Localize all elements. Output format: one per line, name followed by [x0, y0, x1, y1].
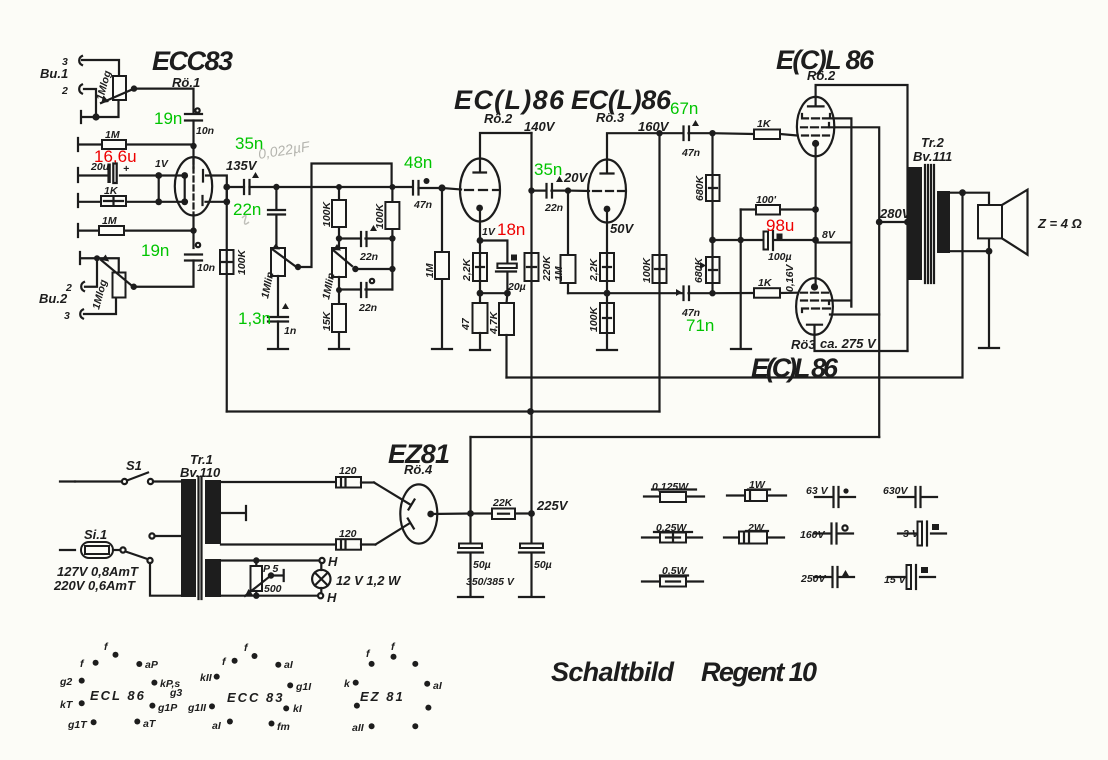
capacitor 47n (71n, lower coupling): [676, 287, 713, 320]
svg-text:H: H: [328, 554, 338, 569]
primary winding block Tr.1: [181, 479, 196, 597]
svg-text:1V: 1V: [155, 158, 169, 170]
svg-text:12 V 1,2 W: 12 V 1,2 W: [336, 573, 402, 588]
svg-text:350/385 V: 350/385 V: [466, 576, 515, 588]
resistor 100 (screen feed): [741, 194, 816, 215]
node 225V: [528, 510, 535, 517]
wire 135V node to 47n: [276, 186, 412, 188]
svg-text:98u: 98u: [766, 216, 794, 235]
input section Bu.1: [40, 56, 194, 123]
resistor 1K (upper grid stopper): [713, 118, 798, 139]
resistor 1K (lower grid stopper): [713, 277, 798, 298]
svg-text:g1I: g1I: [295, 681, 312, 693]
resistor 1M (Roe.3 grid leak): [553, 191, 576, 294]
svg-text:100': 100': [756, 194, 777, 206]
wire wiper to coupling cap: [134, 89, 194, 112]
ground (50u no.2): [519, 596, 544, 598]
svg-text:22n: 22n: [359, 251, 378, 263]
resistor 2,2K (Roe.3 cathode): [588, 253, 614, 303]
wire pin2 to pot bottom: [84, 89, 96, 117]
svg-text:aI: aI: [284, 659, 294, 671]
cathode wire Roe.3: [606, 209, 608, 253]
output tube lower E(C)L 86: [796, 278, 833, 335]
cathode dot Roe.2: [476, 205, 483, 212]
HV bottom lead to 120 resistor: [221, 543, 336, 545]
svg-text:g3: g3: [169, 687, 182, 699]
plate bar upper tube: [808, 97, 824, 106]
plate wire to 160V rail: [607, 133, 660, 159]
legend capacitor 3V electrolytic: [898, 522, 946, 546]
legend resistor 2W: [724, 522, 784, 544]
resistor 4,7K (feedback): [488, 293, 514, 377]
svg-text:127V 0,8AmT: 127V 0,8AmT: [57, 564, 139, 579]
svg-text:1V: 1V: [482, 226, 496, 238]
svg-text:140V: 140V: [524, 119, 556, 134]
svg-text:50µ: 50µ: [473, 559, 491, 571]
primary winding block: [908, 167, 922, 280]
svg-text:100µ: 100µ: [768, 251, 792, 263]
svg-text:2,2K: 2,2K: [461, 257, 473, 282]
primary tap: [149, 533, 154, 538]
svg-text:aII: aII: [352, 722, 365, 734]
terminal H (top): [319, 558, 324, 563]
svg-text:1K: 1K: [104, 185, 119, 197]
resistor 2,2K (cathode): [461, 253, 487, 282]
svg-text:50V: 50V: [610, 221, 634, 236]
svg-text:Z = 4 Ω: Z = 4 Ω: [1037, 216, 1082, 231]
node divider mid: [709, 237, 716, 244]
svg-text:0,022µF: 0,022µF: [257, 138, 312, 162]
svg-text:1Mlin: 1Mlin: [259, 271, 276, 300]
svg-text:Bu.1: Bu.1: [40, 66, 68, 81]
svg-text:aP: aP: [145, 659, 159, 671]
secondary top lead: [950, 193, 989, 205]
node below 2,2K: [479, 281, 481, 303]
svg-text:18n: 18n: [497, 220, 525, 239]
resistor 1M (lower grid leak): [78, 215, 194, 237]
coupling: node on 140V line: [528, 187, 534, 193]
svg-text:Rö.1: Rö.1: [172, 75, 200, 90]
svg-text:4,7K: 4,7K: [488, 310, 500, 335]
riser cathode node to 280V bus: [469, 437, 471, 544]
capacitor 1n to ground: [277, 276, 279, 348]
cathode wire Roe.2: [479, 208, 481, 253]
svg-text:aT: aT: [143, 718, 157, 730]
svg-text:f: f: [391, 641, 396, 653]
svg-text:15 V: 15 V: [884, 574, 907, 586]
resistor 680K (lower divider): [693, 256, 720, 293]
wire grid to Roe.3: [568, 190, 589, 193]
pencil squiggle: [242, 215, 249, 224]
capacitor 22n (lower slider): [339, 279, 392, 314]
plate bar Roe.2: [474, 159, 487, 173]
resistor 680K (upper divider): [694, 133, 720, 257]
resistor 100K (below Roe.3 cathode): [588, 303, 614, 349]
svg-text:f: f: [80, 658, 85, 670]
feedback line to 4,7K: [507, 193, 963, 378]
svg-text:10n: 10n: [197, 262, 215, 274]
node 280V tap: [876, 219, 883, 226]
node 135V plate: [223, 184, 230, 191]
resistor 120 (lower plate): [336, 528, 375, 550]
svg-text:g1II: g1II: [187, 702, 207, 714]
wire pin3 to pot bottom: [84, 298, 116, 315]
grid rows upper tube: [802, 114, 830, 118]
potentiometer 1Mlog (Bu.1 volume): [113, 76, 126, 100]
cathode wire to node: [431, 512, 471, 515]
pentode Roe.2 envelope: [460, 159, 500, 222]
wire lower cap to Bu.2 wiper: [134, 261, 194, 287]
resistor 100K (tone, right): [374, 187, 399, 290]
tone stack: [238, 164, 399, 350]
grid dashes Roe.3: [593, 190, 625, 192]
ground (speaker): [979, 347, 999, 349]
svg-text:2,2K: 2,2K: [588, 257, 600, 282]
svg-text:EZ 81: EZ 81: [360, 689, 405, 704]
svg-text:Rö.2: Rö.2: [484, 111, 513, 126]
resistor 22K (smoothing): [471, 497, 532, 519]
EZ81 envelope: [400, 484, 437, 543]
capacitor 100u (98u, bias bypass): [764, 231, 816, 263]
svg-text:f: f: [366, 648, 371, 660]
B+ bus 280V to center tap: [471, 436, 880, 438]
g2 lead lower to 280V rail: [830, 313, 879, 315]
core laminations: [925, 165, 934, 283]
pinout diagram ECL 86: [59, 641, 182, 731]
svg-text:220V 0,6AmT: 220V 0,6AmT: [53, 578, 136, 593]
pinout diagram EZ 81: [344, 641, 443, 734]
capacitor 50u (reservoir): [458, 544, 515, 597]
legend capacitor 630V: [883, 485, 937, 507]
svg-text:100K: 100K: [641, 256, 653, 283]
svg-text:1Mlog: 1Mlog: [94, 69, 114, 102]
secondary bottom lead: [950, 238, 989, 347]
plate bar lower tube: [807, 325, 822, 335]
legend resistor 0,25W: [642, 522, 702, 543]
node Roe.3 grid: [565, 187, 571, 193]
potentiometer 1Mlin (left): [271, 248, 285, 276]
resistor 220K (140V dropper): [525, 133, 554, 514]
node Roe.2 grid: [438, 184, 445, 191]
capacitor 50u (smoothing no.2): [519, 514, 552, 597]
svg-text:67n: 67n: [670, 99, 698, 118]
svg-text:Si.1: Si.1: [84, 527, 107, 542]
svg-text:Regent 10: Regent 10: [701, 657, 817, 687]
ground (100/100u): [731, 348, 751, 350]
terminal bar upper Bu.2: [80, 252, 119, 273]
capacitor 47n (48n, coupling to Roe.2): [413, 178, 442, 211]
resistor 1K (with 0.25W mark): [78, 185, 185, 207]
pentode envelope upper: [797, 97, 834, 156]
svg-text:aI: aI: [433, 680, 443, 692]
plate lead lower to OPT (ca. 275V): [815, 335, 908, 351]
HV center tap: [221, 506, 246, 520]
svg-text:71n: 71n: [686, 316, 714, 335]
heater secondary block: [205, 559, 221, 597]
plate leads Rö.1: [203, 170, 227, 205]
ground (100K): [597, 349, 617, 351]
svg-text:Rö.4: Rö.4: [404, 462, 433, 477]
potentiometer 1Mlog (Bu.2 volume): [113, 273, 126, 298]
capacitor 20u (cathode bypass): [480, 241, 526, 294]
resistor 1M (upper grid leak): [78, 129, 194, 151]
svg-text:20V: 20V: [563, 170, 588, 185]
node grid1/1M junction: [190, 143, 196, 149]
resistor 120 (upper plate): [336, 465, 374, 488]
svg-text:1n: 1n: [284, 325, 296, 337]
legend capacitor 63V: [806, 485, 855, 507]
svg-text:Bv.111: Bv.111: [913, 149, 952, 164]
secondary winding block: [937, 191, 950, 253]
Bu.2 jack pin 2: [65, 282, 84, 294]
svg-text:kI: kI: [293, 703, 303, 715]
svg-text:f: f: [104, 641, 109, 653]
capacitor 10n (upper grid coupling): [185, 108, 214, 137]
input section Bu.2: [39, 252, 137, 322]
svg-text:19n: 19n: [141, 241, 169, 260]
svg-text:P 5: P 5: [263, 563, 279, 575]
junction Bu.2 top: [94, 255, 100, 261]
svg-text:120: 120: [339, 465, 357, 477]
grid rows lower tube: [801, 292, 828, 294]
node upper splitter: [709, 130, 715, 136]
svg-text:10n: 10n: [196, 125, 214, 137]
svg-text:47: 47: [460, 317, 472, 331]
svg-text:15K: 15K: [321, 310, 333, 331]
svg-text:1K: 1K: [757, 118, 772, 130]
svg-text:aI: aI: [212, 720, 222, 732]
svg-text:47n: 47n: [413, 199, 432, 211]
junction pin2/pot-bottom: [92, 113, 99, 120]
svg-text:47n: 47n: [681, 147, 700, 159]
node 135V junction: [273, 184, 279, 190]
ground (1n): [268, 348, 288, 350]
capacitor 10n (lower grid coupling): [185, 243, 215, 274]
core laminations Tr.1: [199, 477, 202, 599]
svg-text:1Mlin: 1Mlin: [320, 272, 337, 301]
svg-text:Bu.2: Bu.2: [39, 291, 68, 306]
svg-text:120: 120: [339, 528, 357, 540]
legend capacitor 160V: [800, 524, 853, 544]
wire 100 left leg to ground: [740, 210, 742, 349]
resistor 100K (B+ dropper to 135V): [220, 187, 248, 412]
wiper dot Bu.2: [131, 284, 137, 290]
svg-text:250V: 250V: [800, 573, 827, 585]
svg-text:g1T: g1T: [67, 719, 88, 731]
svg-text:Rö3: Rö3: [791, 337, 816, 352]
svg-text:48n: 48n: [404, 153, 432, 172]
svg-text:63 V: 63 V: [806, 485, 829, 497]
terminal H (bottom): [318, 593, 323, 598]
cathode dot lower tube: [811, 283, 818, 290]
svg-text:g1P: g1P: [157, 702, 178, 714]
svg-text:f: f: [222, 656, 227, 668]
ground (1M): [432, 348, 452, 350]
screen lead lower: [830, 301, 851, 307]
svg-text:50µ: 50µ: [534, 559, 552, 571]
svg-text:+: +: [123, 163, 129, 175]
wire pin3 to pot top: [82, 60, 119, 76]
plate wire to 140V rail: [480, 133, 532, 159]
plate lead upper to OPT: [816, 85, 908, 351]
svg-text:225V: 225V: [536, 498, 569, 513]
svg-text:20u: 20u: [90, 161, 110, 173]
wire 1M bottom to cathode node: [568, 292, 607, 294]
svg-text:0,16V: 0,16V: [784, 264, 796, 292]
svg-text:500: 500: [264, 583, 282, 595]
capacitor 22n (treble, to 1Mlin bass pot): [275, 187, 277, 248]
node 1V cathode: [477, 237, 484, 244]
svg-text:k: k: [344, 678, 351, 690]
svg-text:680K: 680K: [694, 174, 706, 201]
g2 lead upper to 280V rail: [829, 127, 879, 437]
legend resistor 0,5W: [642, 565, 703, 587]
plate bar Roe.3: [601, 160, 614, 174]
svg-text:H: H: [327, 590, 337, 605]
wiper dot Bu.1: [131, 85, 137, 91]
wire 2,2K to 20u bottom: [480, 292, 507, 294]
wire grid to tube: [442, 188, 461, 190]
svg-text:1,3n: 1,3n: [238, 309, 271, 328]
svg-text:160V: 160V: [800, 529, 826, 541]
wire tube bottom: [192, 215, 194, 248]
wire divider mid to 100u: [713, 239, 764, 241]
svg-text:1M: 1M: [102, 215, 117, 227]
cathode dot upper tube: [812, 140, 819, 147]
svg-text:ECL 86: ECL 86: [90, 688, 146, 703]
wire cap to grid: [192, 121, 194, 169]
pinout diagram ECC 83: [187, 642, 312, 733]
svg-text:S1: S1: [126, 458, 142, 473]
svg-text:2: 2: [61, 85, 68, 97]
capacitor 47n (67n, upper coupling): [660, 120, 713, 159]
svg-text:22n: 22n: [358, 302, 377, 314]
svg-text:ca. 275 V: ca. 275 V: [820, 336, 877, 351]
ground (47): [470, 349, 490, 351]
legend capacitor 15V electrolytic: [884, 565, 935, 589]
Bu.1 jack pin 3: [62, 56, 82, 68]
svg-text:ECC 83: ECC 83: [227, 690, 285, 705]
svg-text:1M: 1M: [424, 263, 436, 278]
svg-text:100K: 100K: [588, 305, 600, 332]
svg-text:135V: 135V: [226, 158, 258, 173]
wire cathode Roe.3 to 47n lower: [607, 292, 683, 294]
resistor 100K (160V dropper): [641, 133, 667, 411]
terminal bar left of pot bottom wire: [81, 100, 119, 123]
svg-text:fm: fm: [277, 721, 290, 733]
svg-text:22n: 22n: [233, 200, 261, 219]
svg-text:630V: 630V: [883, 485, 909, 497]
legend resistor 1W: [727, 479, 786, 501]
capacitor 20u (input electrolytic): [78, 161, 159, 183]
wire 8V to g3 rail: [816, 241, 852, 243]
Bu.2 jack pin 3: [64, 310, 83, 323]
svg-text:kT: kT: [60, 699, 74, 711]
svg-text:100K: 100K: [236, 248, 248, 275]
svg-text:3: 3: [64, 310, 70, 322]
resistor 47: [460, 303, 488, 349]
svg-text:160V: 160V: [638, 119, 670, 134]
ground (15K): [329, 348, 349, 350]
svg-text:Rö.2: Rö.2: [807, 68, 836, 83]
svg-text:100K: 100K: [321, 200, 333, 227]
resistor 100K (tone, left): [321, 187, 346, 248]
cathode rail between tubes: [814, 144, 816, 287]
svg-text:1M: 1M: [553, 266, 565, 281]
cathode dot Roe.3: [604, 206, 611, 213]
svg-text:1Mlog: 1Mlog: [90, 278, 110, 311]
potentiometer 1Mlin (right): [332, 248, 346, 277]
svg-text:8V: 8V: [822, 229, 836, 241]
screen lead upper to rail: [830, 118, 851, 306]
node 160V: [656, 130, 662, 136]
capacitor 22n (35n, coupling Roe.2 to Roe.3): [532, 176, 569, 214]
svg-text:1K: 1K: [758, 277, 773, 289]
hum pot P5 500: [245, 561, 284, 597]
cathode dot EZ81: [427, 511, 434, 518]
plate electrodes EZ81: [374, 483, 415, 510]
svg-text:19n: 19n: [154, 109, 182, 128]
pentode Roe.3 envelope: [588, 160, 626, 223]
svg-text:100K: 100K: [374, 202, 386, 229]
loudspeaker: [978, 205, 1002, 238]
svg-text:280V: 280V: [879, 206, 912, 221]
svg-text:1M: 1M: [105, 129, 120, 141]
svg-text:ECC83: ECC83: [152, 46, 233, 76]
svg-text:35n: 35n: [534, 160, 562, 179]
grid dashes Roe.2: [465, 189, 499, 191]
Bu.1 jack pin 2: [61, 85, 82, 98]
svg-text:22K: 22K: [492, 497, 514, 509]
node lower splitter: [709, 290, 715, 296]
svg-text:680K: 680K: [693, 256, 705, 283]
svg-text:Tr.2: Tr.2: [921, 135, 945, 150]
triode Rö.1 (ECC83) envelope: [175, 157, 212, 215]
svg-text:Rö.3: Rö.3: [596, 110, 625, 125]
B+ bus 225V distribution: [227, 410, 660, 412]
svg-text:Schaltbild: Schaltbild: [551, 657, 675, 687]
wire linking grid rows: [159, 176, 185, 202]
wire pin2 up to pot top: [85, 258, 97, 287]
pilot lamp 12V 1,2W: [312, 563, 402, 593]
svg-text:kII: kII: [200, 672, 213, 684]
svg-text:g2: g2: [59, 676, 72, 688]
heater lead bottom: [221, 595, 318, 597]
resistor 1M (Roe.2 grid leak): [424, 188, 449, 348]
HV secondary block: [205, 480, 221, 544]
heater lead top: [221, 559, 320, 561]
legend resistor 0,125W: [644, 481, 704, 502]
legend capacitor 250V: [800, 567, 854, 587]
wire wiper riser to top rail: [298, 164, 392, 268]
resistor 15K: [321, 277, 346, 348]
node Roe.3 cathode/feedback: [604, 290, 611, 297]
internal divider (two systems): [192, 159, 194, 215]
wire 20u to tube: [159, 174, 185, 176]
node feedback takeoff: [959, 189, 966, 196]
svg-text:220K: 220K: [541, 254, 553, 282]
ground (50u no.1): [458, 596, 483, 598]
capacitor 22n (upper slider): [339, 225, 392, 263]
svg-text:22n: 22n: [544, 202, 563, 214]
svg-text:f: f: [244, 642, 249, 654]
HV top lead to 120 resistor: [221, 481, 336, 483]
node cathode rail 8V: [812, 237, 819, 244]
capacitor 35n (coupling to tone stack): [227, 172, 277, 194]
